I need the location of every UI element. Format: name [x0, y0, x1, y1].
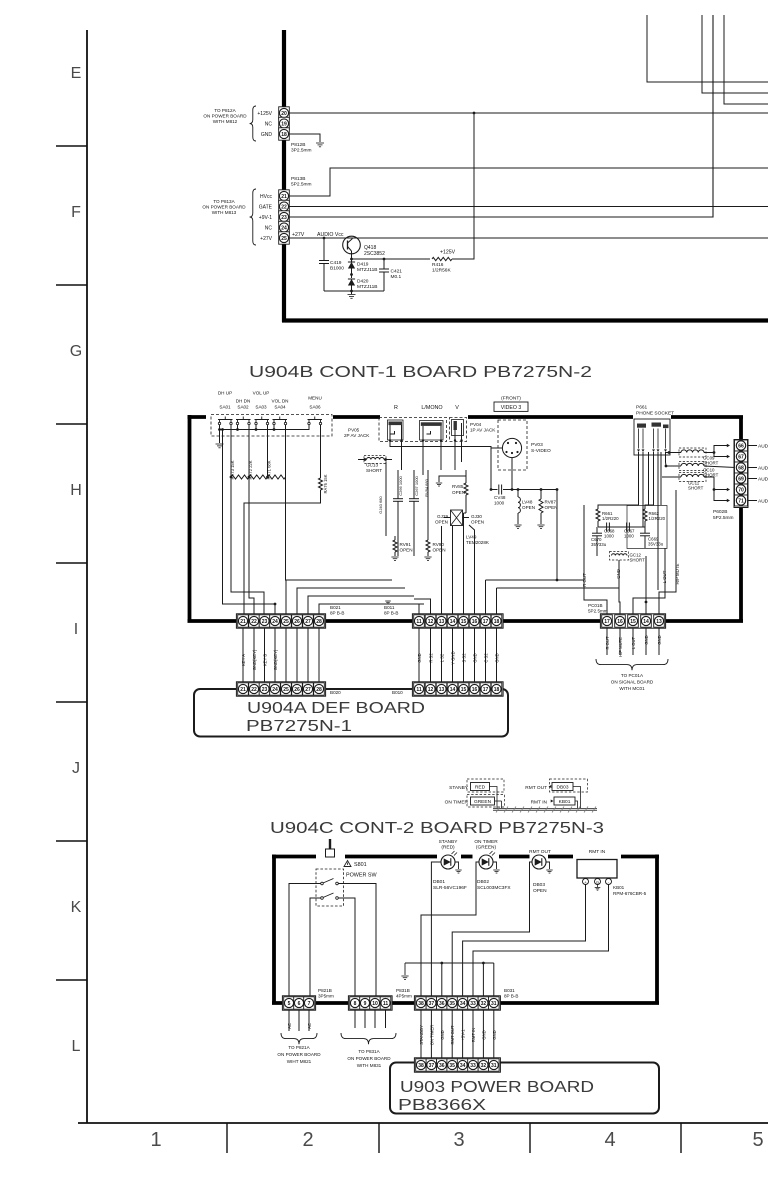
connector B021	[236, 614, 325, 628]
wire P831B drops	[354, 1010, 356, 1028]
svg-text:SHORT: SHORT	[703, 461, 719, 466]
ground rail	[404, 963, 406, 975]
wire pin11 gnd	[388, 604, 419, 614]
wire GC11 to pin70 pin71	[704, 477, 727, 490]
jumper GC09	[679, 448, 706, 457]
wire AUDIO out 69	[748, 478, 757, 480]
svg-text:GND: GND	[473, 653, 478, 662]
wire socket drop 7	[660, 452, 662, 505]
svg-text:34: 34	[460, 1063, 466, 1069]
resistor RA73	[231, 475, 249, 479]
svg-text:S-VIDEO: S-VIDEO	[531, 448, 551, 454]
svg-text:CV48: CV48	[494, 495, 506, 500]
svg-text:35: 35	[449, 1001, 455, 1007]
switch S801 dashed box	[316, 869, 344, 906]
resistor RA76	[319, 478, 323, 490]
svg-text:AUDIO Vcc: AUDIO Vcc	[317, 232, 344, 238]
svg-text:18: 18	[281, 132, 287, 138]
svg-text:26: 26	[294, 619, 300, 625]
svg-text:L/MONO: L/MONO	[421, 405, 442, 411]
resistor R662	[643, 509, 647, 521]
svg-text:P812B: P812B	[291, 142, 305, 148]
svg-text:SA01: SA01	[219, 405, 231, 410]
column tick 2	[378, 1123, 380, 1153]
svg-text:B1000: B1000	[330, 266, 344, 272]
svg-text:PB7275N-1: PB7275N-1	[246, 718, 352, 735]
svg-text:+125V: +125V	[440, 250, 456, 256]
svg-text:B031: B031	[504, 988, 515, 993]
svg-text:+5V-1: +5V-1	[461, 1029, 466, 1041]
svg-text:7: 7	[308, 1001, 311, 1007]
svg-text:18: 18	[494, 687, 500, 693]
svg-text:31: 31	[491, 1001, 497, 1007]
svg-text:STANBY: STANBY	[449, 785, 469, 791]
capacitor C668	[606, 523, 608, 532]
connector P831B	[348, 996, 392, 1010]
svg-text:PV04: PV04	[470, 422, 482, 427]
svg-text:MTZJ11B: MTZJ11B	[357, 284, 377, 290]
row tick E/F	[56, 145, 87, 147]
svg-text:RV85: RV85	[452, 484, 464, 489]
svg-text:2: 2	[302, 1129, 313, 1151]
svg-text:MENU: MENU	[308, 396, 322, 401]
svg-text:14: 14	[450, 687, 456, 693]
svg-text:1: 1	[150, 1129, 161, 1151]
svg-text:C266 1000: C266 1000	[398, 475, 403, 495]
svg-text:GND(KEY): GND(KEY)	[252, 649, 257, 670]
board U904C outline right edge	[655, 855, 659, 1004]
svg-text:28: 28	[316, 687, 322, 693]
svg-text:+9V-1: +9V-1	[259, 215, 272, 221]
svg-text:HVcc: HVcc	[260, 194, 272, 200]
svg-text:K: K	[71, 899, 82, 916]
board U904A DEF outline	[194, 689, 508, 737]
svg-text:ON TIMER: ON TIMER	[445, 800, 469, 806]
jumper GC12	[610, 552, 629, 561]
wire pin13 up	[441, 556, 443, 614]
node +125V junction	[473, 112, 476, 115]
svg-text:22: 22	[281, 204, 287, 210]
svg-text:C421: C421	[391, 269, 403, 275]
resistor RV91	[394, 536, 396, 540]
module KB01	[577, 860, 617, 879]
row tick I/J	[56, 701, 87, 703]
svg-text:D419: D419	[357, 262, 369, 268]
svg-text:RA73 15K: RA73 15K	[230, 460, 235, 479]
svg-text:STANDBY: STANDBY	[419, 1025, 424, 1045]
board U904B outline top edge seg3	[468, 415, 633, 419]
svg-text:OPEN: OPEN	[433, 548, 446, 553]
svg-text:5P2.5mm: 5P2.5mm	[713, 515, 734, 521]
board U904B outline top edge seg4	[671, 415, 743, 419]
svg-text:8P B-B: 8P B-B	[330, 611, 344, 616]
wire S-video bottom	[511, 458, 513, 490]
svg-text:1P AV JACK: 1P AV JACK	[470, 428, 496, 433]
capacitor C267	[413, 470, 415, 499]
connector B010	[412, 682, 503, 696]
board U904B outline top edge seg1	[188, 415, 207, 419]
wire pin16 up	[474, 540, 476, 614]
svg-text:66: 66	[738, 443, 744, 449]
svg-text:AUDIO: AUDIO	[758, 476, 768, 482]
wire S801 to pin10	[338, 884, 376, 998]
svg-text:4P5mm: 4P5mm	[396, 994, 412, 999]
svg-text:PC01B: PC01B	[588, 603, 603, 608]
svg-text:SHORT: SHORT	[688, 486, 704, 491]
svg-text:AC: AC	[287, 1023, 292, 1029]
svg-text:9: 9	[364, 1001, 367, 1007]
svg-text:PV05: PV05	[348, 428, 360, 433]
wire HVcc from pin21	[290, 168, 768, 196]
svg-text:GND: GND	[481, 1030, 486, 1039]
wire right link	[556, 490, 558, 581]
svg-text:27: 27	[305, 687, 311, 693]
svg-text:H/P MUTE: H/P MUTE	[618, 637, 623, 657]
wire DB03 to pin35	[452, 862, 531, 997]
svg-text:G: G	[596, 880, 599, 884]
capacitor C669	[644, 527, 646, 533]
wire mid link 588	[497, 587, 620, 589]
wire AUDIO out 68	[748, 467, 757, 469]
svg-text:KEY A: KEY A	[241, 654, 246, 666]
svg-text:LV48: LV48	[522, 500, 533, 505]
svg-text:GND: GND	[495, 653, 500, 662]
svg-text:VOL DN: VOL DN	[272, 399, 289, 404]
svg-text:23: 23	[262, 619, 268, 625]
wire pin27 up	[308, 596, 414, 614]
svg-text:B021: B021	[330, 605, 341, 610]
svg-text:GJ29: GJ29	[437, 514, 448, 519]
svg-text:OPEN: OPEN	[533, 888, 547, 894]
svg-text:17: 17	[483, 687, 489, 693]
svg-text:11: 11	[416, 687, 422, 693]
svg-text:8P B-B: 8P B-B	[504, 994, 518, 999]
board U904B outline right edge upper	[739, 417, 743, 440]
svg-text:22: 22	[251, 687, 257, 693]
row tick G/H	[56, 423, 87, 425]
board U904C outline top seg1	[272, 855, 316, 859]
svg-text:TO P831A: TO P831A	[358, 1049, 380, 1054]
svg-text:1000: 1000	[494, 501, 505, 506]
board U904C outline top seg3	[461, 855, 473, 859]
wire S801 to pin7	[310, 898, 321, 997]
wire gnd rail CONT-2	[405, 962, 494, 964]
svg-text:5: 5	[288, 1001, 291, 1007]
svg-text:10: 10	[372, 1001, 378, 1007]
ground DB01	[455, 862, 459, 869]
jumper GC13	[364, 456, 386, 464]
svg-text:ON TIMER: ON TIMER	[474, 839, 498, 845]
wire socket drop 2	[642, 452, 644, 527]
wire HP mute to pin13	[659, 490, 676, 614]
svg-text:V: V	[455, 405, 459, 411]
svg-text:GREEN: GREEN	[474, 799, 492, 805]
ground KB01	[597, 885, 599, 888]
wire GND2 to pin14	[645, 556, 647, 614]
svg-text:38: 38	[418, 1001, 424, 1007]
wire switch common bus	[220, 425, 310, 430]
connector P821B	[282, 996, 315, 1010]
svg-text:1/2R220: 1/2R220	[602, 516, 619, 521]
svg-text:19: 19	[281, 121, 287, 127]
svg-text:ON POWER BOARD: ON POWER BOARD	[203, 114, 247, 119]
svg-text:U903 POWER BOARD: U903 POWER BOARD	[400, 1079, 594, 1096]
svg-text:18: 18	[494, 619, 500, 625]
svg-text:ON POWER BOARD: ON POWER BOARD	[202, 205, 246, 210]
warning triangle	[344, 861, 351, 867]
svg-text:11: 11	[416, 619, 422, 625]
svg-text:AUDIO: AUDIO	[758, 443, 768, 449]
svg-text:S S2: S S2	[462, 653, 467, 663]
svg-text:34: 34	[460, 1001, 466, 1007]
svg-text:P661: P661	[636, 405, 648, 411]
svg-text:OPEN: OPEN	[435, 520, 448, 525]
svg-text:69: 69	[738, 476, 744, 482]
svg-text:25: 25	[283, 687, 289, 693]
capacitor C670	[596, 527, 598, 533]
svg-text:(GREEN): (GREEN)	[476, 845, 497, 851]
svg-text:GJ30: GJ30	[471, 514, 482, 519]
svg-text:22: 22	[251, 619, 257, 625]
wire RA71 top drop	[267, 425, 269, 477]
svg-text:37: 37	[429, 1001, 435, 1007]
svg-text:8P B-B: 8P B-B	[384, 611, 398, 616]
wire jack R down	[390, 441, 491, 490]
svg-text:VOL UP: VOL UP	[253, 391, 270, 396]
svg-text:R: R	[394, 405, 398, 411]
svg-text:SCL003MC3FX: SCL003MC3FX	[477, 885, 511, 891]
svg-text:23: 23	[281, 215, 287, 221]
svg-text:36: 36	[439, 1001, 445, 1007]
wire GND chan to pin16	[619, 560, 620, 614]
svg-text:5: 5	[752, 1129, 763, 1151]
brace P812A	[250, 106, 256, 141]
svg-text:15: 15	[461, 687, 467, 693]
svg-text:4: 4	[604, 1129, 615, 1151]
svg-text:DB02: DB02	[477, 879, 489, 885]
inductor LV48	[517, 488, 520, 491]
svg-text:RMT IN: RMT IN	[471, 1028, 476, 1042]
wire top right 2	[702, 15, 768, 93]
svg-text:RMT IN: RMT IN	[589, 849, 606, 855]
svg-text:P821B: P821B	[318, 988, 332, 993]
svg-text:16: 16	[472, 687, 478, 693]
wire pin17 up	[485, 580, 487, 614]
wire mid link 580	[486, 579, 585, 581]
svg-text:M0.1: M0.1	[391, 274, 402, 280]
svg-text:26: 26	[294, 687, 300, 693]
svg-text:1/2R220: 1/2R220	[649, 516, 666, 521]
svg-text:DB03: DB03	[557, 785, 569, 791]
board U904C outline top seg4	[499, 855, 530, 859]
svg-text:32: 32	[481, 1001, 487, 1007]
svg-text:F: F	[71, 204, 81, 221]
svg-text:37: 37	[429, 1063, 435, 1069]
column tick 1	[226, 1123, 228, 1153]
svg-text:35V33u: 35V33u	[648, 542, 664, 547]
svg-text:STANBY: STANBY	[439, 839, 459, 845]
svg-text:E: E	[71, 65, 82, 82]
svg-text:RA76 15K: RA76 15K	[323, 474, 328, 493]
svg-text:+27V: +27V	[260, 236, 272, 242]
jumper GC10	[679, 462, 706, 471]
ground switch bus	[216, 443, 224, 445]
svg-text:NC: NC	[265, 121, 273, 127]
jack R contact block	[388, 420, 404, 440]
wire bundle B021-B020	[242, 628, 244, 682]
connector PC01B	[600, 614, 665, 628]
wire KB01 p1 to pin34	[463, 885, 586, 998]
brace TO PC01A	[596, 659, 668, 670]
wire S801 to pin5	[289, 884, 321, 998]
wire bundle B031 down	[420, 1010, 422, 1058]
jack V contact	[454, 421, 457, 430]
svg-text:+125V: +125V	[257, 111, 272, 117]
svg-text:SHORT: SHORT	[630, 558, 646, 563]
resistor R661	[596, 509, 600, 521]
svg-text:LV49: LV49	[466, 535, 477, 540]
svg-text:68: 68	[738, 465, 744, 471]
svg-text:H: H	[70, 482, 82, 499]
svg-text:C419: C419	[330, 260, 342, 266]
row tick J/K	[56, 840, 87, 842]
svg-text:RMT OUT: RMT OUT	[525, 785, 547, 791]
board U904B outline right edge lower	[739, 507, 743, 621]
svg-text:Y GND: Y GND	[451, 651, 456, 664]
board U904C outline top seg6	[621, 855, 659, 859]
ground D420	[350, 290, 353, 293]
wire AC drops	[288, 1010, 290, 1031]
zener diode D419	[351, 259, 353, 262]
svg-text:35: 35	[449, 1063, 455, 1069]
brace P813A	[250, 189, 256, 245]
wire pin14 up	[452, 526, 454, 614]
connector B031	[414, 996, 500, 1010]
switch S801 lower contact	[321, 897, 324, 900]
box around L OUT channel	[627, 506, 667, 549]
svg-text:1000: 1000	[604, 534, 614, 539]
resistor R416	[432, 257, 452, 260]
capacitor CV48	[491, 489, 498, 491]
board U904B outline bottom edge	[188, 619, 744, 623]
shield hatches	[496, 807, 500, 813]
svg-text:RV91: RV91	[400, 542, 412, 547]
svg-text:24: 24	[281, 225, 287, 231]
switch SA02 DH DN	[236, 422, 238, 424]
capacitor C266	[397, 470, 399, 499]
capacitor C667	[626, 523, 628, 532]
svg-text:16: 16	[472, 619, 478, 625]
wire RA73 junction down to pin23	[231, 477, 264, 614]
switch SA06 MENU	[308, 422, 310, 424]
crossover LV49 block	[451, 510, 463, 526]
svg-text:1000: 1000	[624, 534, 634, 539]
svg-text:5P2.5mm: 5P2.5mm	[588, 609, 608, 614]
svg-text:15: 15	[461, 619, 467, 625]
svg-text:DH DN: DH DN	[236, 399, 251, 404]
svg-text:R S2: R S2	[429, 653, 434, 663]
svg-text:SA06: SA06	[309, 405, 321, 410]
svg-text:GND: GND	[657, 635, 662, 644]
wire top right 1	[647, 15, 768, 82]
connector B031 power side	[414, 1058, 500, 1072]
connector P812B	[279, 107, 290, 119]
wire DB02 to pin36	[421, 862, 479, 997]
svg-text:14: 14	[643, 619, 649, 625]
svg-text:L OUT: L OUT	[631, 636, 636, 649]
LED DB01	[441, 855, 455, 869]
wire +27V AUDIO Vcc from pin25	[290, 237, 768, 239]
wire bundle B011-B010	[418, 628, 420, 682]
top board left edge	[282, 30, 286, 322]
svg-text:R OUT: R OUT	[605, 636, 610, 649]
socket P661 box	[634, 419, 670, 455]
svg-text:GATE: GATE	[259, 204, 273, 210]
node junction C419	[323, 237, 326, 240]
svg-text:PB8366X: PB8366X	[398, 1097, 486, 1114]
svg-text:5P2.5mm: 5P2.5mm	[291, 182, 312, 188]
board U904C outline left edge	[272, 855, 276, 1004]
connector B020	[236, 682, 325, 696]
svg-text:25: 25	[283, 619, 289, 625]
svg-text:RMT OUT: RMT OUT	[450, 1025, 455, 1044]
wire bus to ground	[219, 430, 221, 444]
svg-text:3P2.5mm: 3P2.5mm	[291, 148, 312, 154]
switch SA03 VOL UP	[255, 422, 257, 424]
ground at P812B pin18	[316, 142, 324, 144]
svg-text:SA04: SA04	[274, 405, 286, 410]
resistor RA71	[268, 475, 286, 479]
wire emitter rail	[352, 258, 431, 260]
svg-text:SHORT: SHORT	[366, 468, 382, 473]
svg-text:GND: GND	[261, 132, 273, 138]
left border line	[86, 30, 88, 1123]
svg-text:12: 12	[428, 619, 434, 625]
switch SA01 DH UP	[218, 422, 220, 424]
svg-text:KB01: KB01	[613, 885, 625, 890]
svg-text:RMT OUT: RMT OUT	[529, 849, 551, 855]
row tick H/I	[56, 562, 87, 564]
svg-text:WIHT M821: WIHT M821	[287, 1059, 312, 1064]
svg-text:P602B: P602B	[713, 509, 727, 515]
svg-text:15: 15	[630, 619, 636, 625]
svg-text:POWER SW: POWER SW	[346, 873, 377, 879]
svg-text:ON TIMER: ON TIMER	[429, 1025, 434, 1045]
capacitor C419	[323, 238, 325, 261]
board U903 POWER outline	[390, 1063, 659, 1114]
svg-text:RPM-676CBR-5: RPM-676CBR-5	[613, 891, 647, 896]
svg-text:U904C CONT-2 BOARD PB7275N-: U904C CONT-2 BOARD PB7275N-3	[270, 820, 604, 837]
wire KB01 p3 to pin33	[473, 885, 609, 998]
svg-text:1/2R56K: 1/2R56K	[432, 268, 451, 274]
svg-text:35V33u: 35V33u	[591, 542, 607, 547]
svg-text:C S2: C S2	[484, 653, 489, 663]
wire socket drop 6	[648, 452, 650, 505]
jumper GC11	[679, 473, 706, 482]
svg-text:L S2: L S2	[440, 653, 445, 662]
transistor Q418	[343, 236, 361, 254]
shield line	[493, 808, 597, 810]
svg-text:27: 27	[305, 619, 311, 625]
board U904B outline top edge seg2	[333, 415, 380, 419]
svg-text:VIDEO 3: VIDEO 3	[501, 405, 522, 411]
switch MENU right drop	[320, 425, 322, 478]
svg-text:WITH M812: WITH M812	[213, 119, 238, 124]
wire +125V from pin20	[290, 112, 768, 114]
svg-text:RV87: RV87	[545, 500, 557, 505]
wire +9V-1 from pin23	[290, 15, 714, 217]
svg-text:67: 67	[738, 454, 744, 460]
